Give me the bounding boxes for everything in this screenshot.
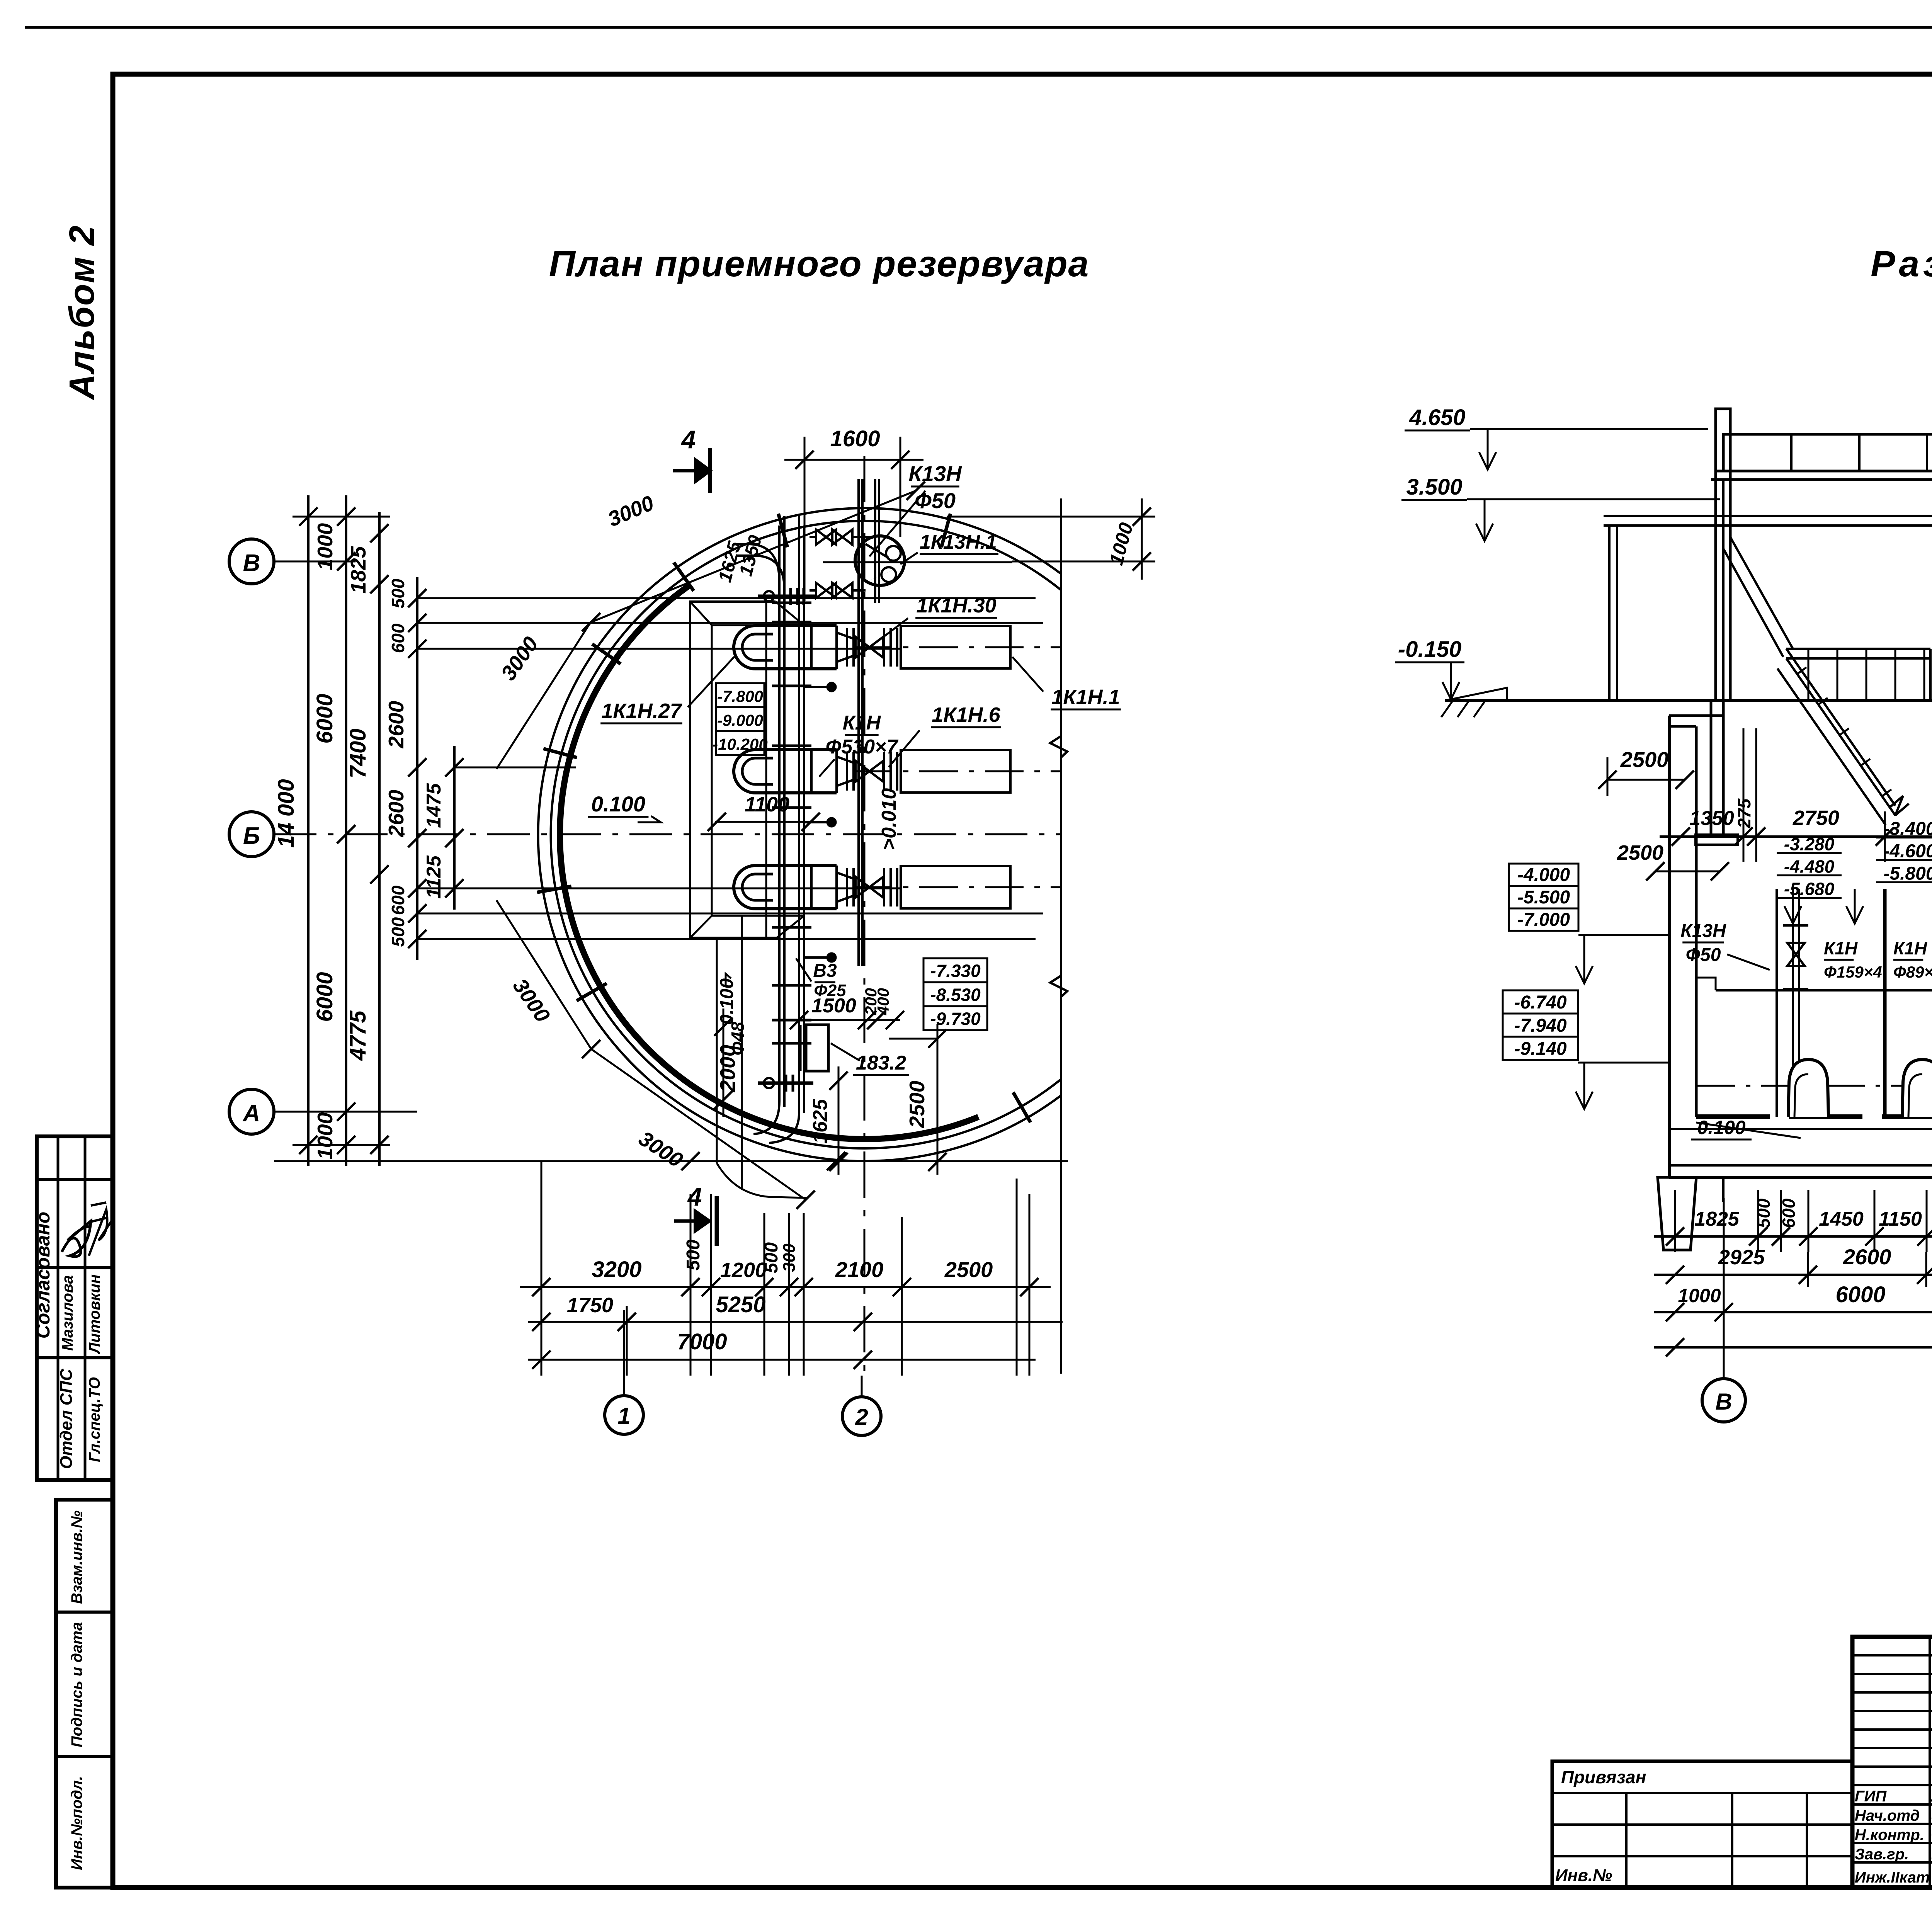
top pipe circle 1К13Н.1 bbox=[855, 536, 905, 585]
svg-text:Согласовано: Согласовано bbox=[32, 1212, 54, 1339]
svg-text:А: А bbox=[242, 1100, 260, 1127]
mid footing ticks bbox=[1722, 1177, 1725, 1202]
svg-text:6000: 6000 bbox=[1835, 1282, 1885, 1307]
svg-text:2: 2 bbox=[855, 1404, 868, 1430]
svg-text:1750: 1750 bbox=[567, 1294, 613, 1317]
approval signatures bbox=[62, 1221, 91, 1257]
wall ticks bbox=[577, 983, 607, 1001]
section mark 4 bottom bbox=[674, 1219, 708, 1223]
tank top slab bbox=[1669, 714, 1723, 717]
left stack -6.740 bbox=[1503, 990, 1578, 1014]
plan bottom dims row3 bbox=[528, 1359, 1036, 1361]
svg-text:В: В bbox=[1715, 1389, 1732, 1415]
svg-text:2600: 2600 bbox=[384, 789, 408, 837]
svg-text:2750: 2750 bbox=[1793, 806, 1839, 830]
svg-text:Мазилова: Мазилова bbox=[59, 1275, 76, 1351]
svg-text:-5.680: -5.680 bbox=[1784, 879, 1835, 899]
svg-text:Ф530×7: Ф530×7 bbox=[826, 736, 899, 758]
riser bottom bend bbox=[753, 1101, 779, 1134]
section dims row3 bbox=[1654, 1311, 1932, 1313]
crane beam band bbox=[1723, 434, 1932, 471]
svg-text:-4.480: -4.480 bbox=[1784, 857, 1835, 877]
svg-text:1825: 1825 bbox=[1694, 1208, 1740, 1230]
upper stair flight bbox=[1730, 537, 1793, 649]
svg-text:1600: 1600 bbox=[830, 426, 880, 451]
svg-text:1К1Н.1: 1К1Н.1 bbox=[1051, 685, 1120, 709]
revision table rows bbox=[1852, 1654, 1932, 1656]
inventory strip bbox=[56, 1500, 113, 1888]
dim chain 1475-1125 bbox=[453, 746, 456, 910]
axis В marker bbox=[229, 539, 274, 584]
svg-text:1350: 1350 bbox=[1689, 807, 1734, 830]
sheet outer boundary top line bbox=[25, 26, 1932, 29]
svg-text:1125: 1125 bbox=[423, 855, 445, 899]
dim chain 1825-7400-4775 bbox=[378, 512, 381, 1166]
svg-text:Ф50: Ф50 bbox=[1686, 945, 1721, 965]
svg-text:К1Н: К1Н bbox=[843, 712, 881, 734]
svg-text:-3.400: -3.400 bbox=[1883, 819, 1932, 839]
tank interior chain dims bbox=[1660, 835, 1932, 838]
svg-text:К1Н: К1Н bbox=[1824, 938, 1858, 958]
svg-text:-7.940: -7.940 bbox=[1514, 1015, 1566, 1036]
svg-text:План приемного резервуара: План приемного резервуара bbox=[549, 243, 1090, 284]
tank floor thick bbox=[1696, 1114, 1932, 1119]
left footing bbox=[1658, 1177, 1696, 1250]
privyazan table bbox=[1552, 1761, 1852, 1888]
svg-text:1К1Н.30: 1К1Н.30 bbox=[916, 594, 996, 617]
stairs flight bbox=[1786, 658, 1895, 815]
svg-text:К1Н: К1Н bbox=[1893, 938, 1927, 958]
elev stack -7.800 bbox=[716, 683, 764, 707]
svg-text:500: 500 bbox=[1753, 1198, 1774, 1228]
svg-text:1К1Н.27: 1К1Н.27 bbox=[601, 699, 682, 723]
dim 2000 ticks bbox=[723, 1009, 724, 1117]
svg-text:-3.280: -3.280 bbox=[1784, 834, 1835, 854]
svg-text:1000: 1000 bbox=[313, 1112, 337, 1160]
svg-text:Нач.отд: Нач.отд bbox=[1855, 1807, 1920, 1824]
svg-text:6000: 6000 bbox=[312, 972, 337, 1022]
bell channel 2 bbox=[1902, 1060, 1932, 1117]
svg-text:-9.140: -9.140 bbox=[1514, 1039, 1566, 1059]
svg-text:Ф159×4: Ф159×4 bbox=[1824, 963, 1882, 981]
svg-text:2600: 2600 bbox=[1843, 1245, 1891, 1269]
radial dim 3000 upper bbox=[591, 491, 916, 622]
svg-text:-6.740: -6.740 bbox=[1514, 992, 1566, 1013]
svg-text:0.100: 0.100 bbox=[717, 978, 737, 1025]
section extension lines bbox=[1674, 1190, 1676, 1252]
pipe axis dashdot bbox=[1696, 1085, 1932, 1087]
svg-text:Инв.№: Инв.№ bbox=[1555, 1866, 1612, 1885]
riser top bend bbox=[736, 544, 779, 582]
svg-text:2600: 2600 bbox=[384, 701, 408, 748]
axis В section bbox=[1702, 1379, 1745, 1422]
pipe corridor below bbox=[716, 938, 718, 1163]
radial dim 3000 mid bbox=[497, 621, 591, 769]
left parapet bbox=[1716, 409, 1730, 471]
svg-text:-10.200: -10.200 bbox=[713, 735, 767, 753]
svg-text:Подпись и дата: Подпись и дата bbox=[68, 1622, 85, 1747]
svg-text:Н.контр.: Н.контр. bbox=[1855, 1827, 1924, 1844]
pit rectangle bbox=[806, 1025, 828, 1071]
svg-text:-7.330: -7.330 bbox=[930, 961, 981, 981]
bottom fitting bbox=[758, 1082, 813, 1085]
svg-text:2500: 2500 bbox=[944, 1257, 993, 1282]
bottom chain line bbox=[293, 1144, 390, 1146]
svg-text:1000: 1000 bbox=[1678, 1285, 1721, 1306]
svg-text:>0.010: >0.010 bbox=[878, 788, 900, 850]
svg-text:1200: 1200 bbox=[720, 1259, 767, 1282]
tank middle circle clipped bbox=[551, 521, 1061, 1148]
svg-text:400: 400 bbox=[874, 988, 892, 1015]
svg-text:Литовкин: Литовкин bbox=[86, 1274, 103, 1354]
svg-text:Зав.гр.: Зав.гр. bbox=[1855, 1846, 1909, 1863]
svg-text:Ф48: Ф48 bbox=[728, 1022, 748, 1055]
tank inner wall thick arc bbox=[560, 585, 978, 1139]
svg-text:6000: 6000 bbox=[312, 694, 337, 743]
svg-text:600: 600 bbox=[388, 885, 408, 915]
top chain line bbox=[293, 516, 390, 518]
stair rail break bbox=[1889, 796, 1909, 815]
section dims row4 bbox=[1654, 1346, 1932, 1349]
main riser pipes bbox=[778, 526, 781, 1101]
annex column bbox=[1608, 526, 1611, 701]
svg-text:Отдел СПС: Отдел СПС bbox=[57, 1368, 76, 1469]
section mark 4 top bbox=[673, 469, 710, 473]
svg-text:Привязан: Привязан bbox=[1561, 1767, 1646, 1787]
stairs landing bbox=[1786, 648, 1930, 650]
radial dim 3000 bottom bbox=[591, 1049, 806, 1200]
svg-text:1625: 1625 bbox=[809, 1099, 832, 1144]
svg-text:1150: 1150 bbox=[1879, 1208, 1922, 1230]
dim chain 500-600-2600 bbox=[416, 577, 418, 960]
plan bottom dims row1 bbox=[520, 1286, 1051, 1288]
svg-text:500: 500 bbox=[388, 578, 408, 608]
radial dim 3000 lower bbox=[497, 900, 591, 1049]
svg-text:К13Н: К13Н bbox=[908, 461, 962, 486]
tank outer circle clipped bbox=[538, 508, 1061, 1161]
svg-text:1475: 1475 bbox=[423, 783, 445, 828]
approval table bbox=[37, 1136, 113, 1480]
svg-text:-7.000: -7.000 bbox=[1517, 910, 1570, 930]
svg-text:К13Н: К13Н bbox=[1680, 921, 1726, 941]
svg-text:4775: 4775 bbox=[345, 1010, 371, 1061]
inner ceiling bbox=[1722, 480, 1725, 701]
chord lines bbox=[417, 597, 1036, 599]
svg-text:Разрез 4-4: Разрез 4-4 bbox=[1871, 243, 1932, 284]
svg-text:-5.500: -5.500 bbox=[1517, 887, 1570, 908]
plan bottom dims row2 bbox=[528, 1321, 1063, 1323]
pipe К1Н Ф89 mid bbox=[1883, 889, 1887, 1117]
svg-text:4: 4 bbox=[687, 1182, 702, 1211]
axis 2 marker plan bbox=[842, 1397, 881, 1435]
revision table columns bbox=[1929, 1637, 1931, 1888]
svg-text:-7.800: -7.800 bbox=[717, 687, 763, 705]
chain extension verticals bbox=[1743, 728, 1745, 862]
svg-text:1825: 1825 bbox=[346, 546, 370, 594]
svg-text:Альбом 2: Альбом 2 bbox=[62, 225, 102, 400]
svg-text:4: 4 bbox=[681, 425, 696, 454]
svg-text:-8.530: -8.530 bbox=[930, 985, 981, 1005]
small pump top bbox=[764, 591, 774, 601]
dim 2500 vertical bbox=[937, 1024, 939, 1175]
svg-text:В3: В3 bbox=[813, 961, 837, 981]
svg-text:2100: 2100 bbox=[835, 1257, 884, 1282]
svg-text:500: 500 bbox=[683, 1240, 704, 1270]
pump unit 1 bbox=[734, 626, 755, 669]
svg-text:-4.600: -4.600 bbox=[1883, 841, 1932, 862]
svg-text:В: В bbox=[243, 550, 260, 577]
annex roof left bbox=[1604, 515, 1932, 517]
k13n risers bbox=[874, 479, 876, 603]
right edge 1000 dim bbox=[947, 516, 1155, 518]
left stack -4.000 bbox=[1509, 864, 1578, 886]
extension lines plan bottom bbox=[541, 1161, 543, 1376]
svg-text:Гл.спец.ТО: Гл.спец.ТО bbox=[86, 1377, 103, 1462]
pump unit 2 bbox=[734, 750, 755, 793]
left wall foundation bbox=[1710, 701, 1713, 835]
svg-text:1К13Н.1: 1К13Н.1 bbox=[920, 531, 997, 553]
svg-text:-9.000: -9.000 bbox=[717, 711, 763, 729]
section dims row2 bbox=[1654, 1274, 1932, 1276]
svg-text:Ф89×3,5: Ф89×3,5 bbox=[1893, 963, 1932, 981]
drain stubs bbox=[804, 686, 827, 688]
svg-text:1450: 1450 bbox=[1819, 1208, 1864, 1230]
svg-text:2500: 2500 bbox=[1617, 841, 1663, 864]
svg-text:1: 1 bbox=[617, 1403, 630, 1429]
svg-text:Ф50: Ф50 bbox=[915, 488, 956, 513]
roof slab bbox=[1711, 478, 1932, 481]
top valves bbox=[816, 530, 826, 545]
svg-text:500: 500 bbox=[388, 917, 408, 947]
svg-text:2500: 2500 bbox=[1620, 747, 1669, 772]
svg-text:0.100: 0.100 bbox=[1697, 1117, 1745, 1138]
axis 2 line bbox=[864, 456, 866, 1376]
svg-text:3.500: 3.500 bbox=[1406, 474, 1462, 500]
left wall upper bbox=[1714, 471, 1717, 701]
svg-text:7000: 7000 bbox=[677, 1329, 727, 1354]
valve on riser bbox=[1787, 943, 1805, 954]
secondary riser bbox=[857, 479, 860, 966]
pipe К13Н Ф50 vertical bbox=[1776, 889, 1778, 1117]
svg-text:1500: 1500 bbox=[811, 995, 856, 1017]
svg-text:4.650: 4.650 bbox=[1409, 405, 1465, 430]
svg-text:3200: 3200 bbox=[592, 1257, 641, 1282]
svg-text:Инв.№подл.: Инв.№подл. bbox=[68, 1776, 85, 1870]
tank bottom slab bbox=[1669, 1176, 1932, 1179]
intermediate slab bbox=[1716, 989, 1932, 992]
svg-text:Инж.IIкат: Инж.IIкат bbox=[1855, 1869, 1930, 1886]
svg-text:0.100: 0.100 bbox=[591, 792, 645, 816]
svg-text:1К1Н.6: 1К1Н.6 bbox=[932, 703, 1000, 726]
svg-text:14 000: 14 000 bbox=[274, 779, 299, 847]
svg-text:183.2: 183.2 bbox=[856, 1052, 906, 1074]
bell channel 1 bbox=[1788, 1060, 1828, 1117]
ground hatch left bbox=[1441, 701, 1453, 717]
ground line bbox=[1445, 699, 1932, 702]
circle cross line bbox=[823, 561, 1012, 563]
svg-text:-0.150: -0.150 bbox=[1398, 637, 1461, 662]
elev stack -7.330 bbox=[923, 958, 987, 982]
pump unit 3 bbox=[734, 866, 755, 909]
axis 1 marker plan bbox=[605, 1396, 643, 1434]
pump room outline bbox=[690, 602, 777, 938]
svg-text:Б: Б bbox=[243, 823, 260, 849]
axis Б marker bbox=[229, 812, 274, 857]
dim chain 6000-6000 bbox=[345, 495, 347, 1166]
svg-text:ГИП: ГИП bbox=[1855, 1788, 1887, 1805]
axis А marker bbox=[229, 1089, 274, 1134]
lower chord line bbox=[274, 1160, 1068, 1162]
svg-text:-5.800: -5.800 bbox=[1883, 864, 1932, 884]
svg-text:5250: 5250 bbox=[716, 1292, 765, 1317]
ground edge wedges bbox=[1445, 688, 1507, 701]
title block outline bbox=[1852, 1637, 1932, 1888]
riser flanges bbox=[772, 621, 811, 624]
dim chain 14000 bbox=[307, 495, 310, 1166]
svg-text:7400: 7400 bbox=[345, 728, 371, 778]
section dims row1 bbox=[1654, 1235, 1932, 1238]
drawing break line bbox=[1060, 498, 1062, 1374]
svg-text:Взам.инв.№: Взам.инв.№ bbox=[68, 1510, 85, 1604]
tank outer walls bbox=[1668, 716, 1671, 1177]
svg-text:1100: 1100 bbox=[745, 793, 789, 816]
svg-text:-4.000: -4.000 bbox=[1517, 865, 1570, 885]
svg-text:1000: 1000 bbox=[313, 523, 337, 570]
svg-text:2500: 2500 bbox=[905, 1080, 929, 1128]
svg-text:600: 600 bbox=[388, 623, 408, 653]
